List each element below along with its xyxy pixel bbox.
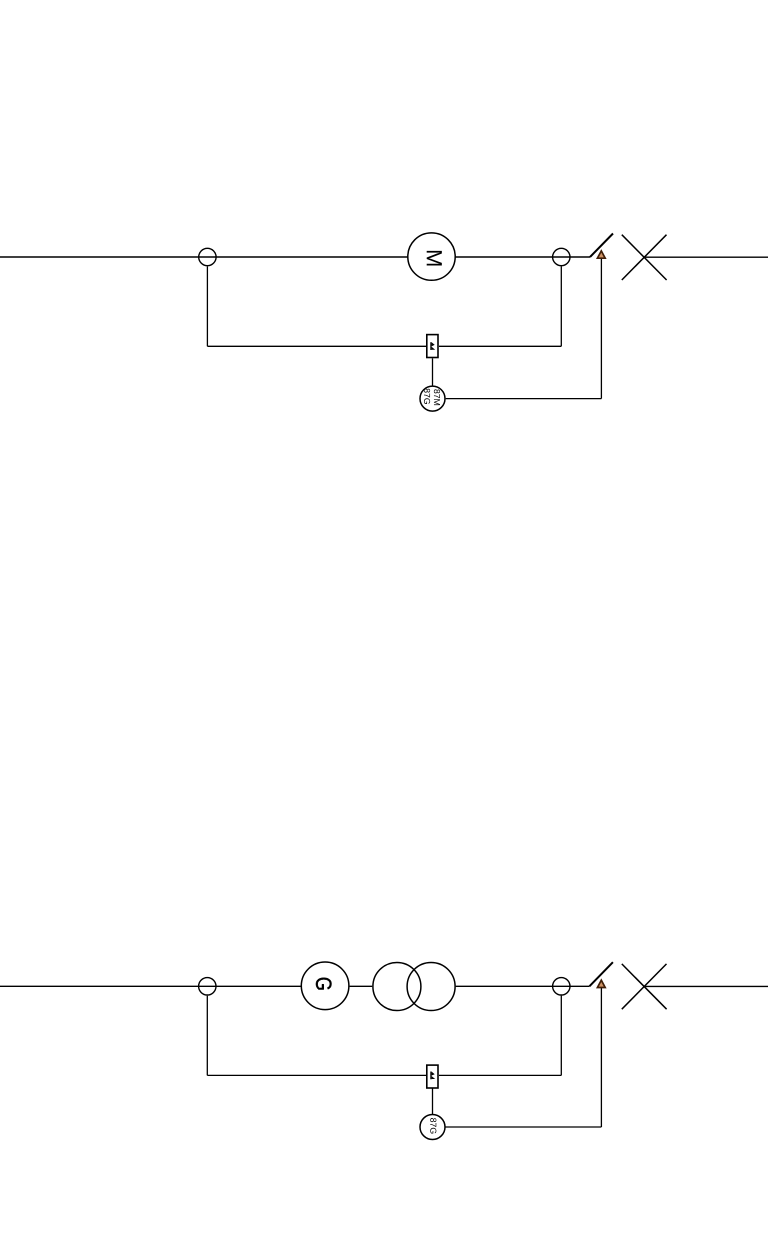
wire left CT drop bottom	[206, 996, 208, 1076]
wire trip line up to switch bottom	[600, 988, 602, 1127]
wire top bus middle segment	[455, 256, 590, 258]
wire loop bottom right top-circuit	[439, 345, 561, 347]
wire relay output horizontal bottom	[446, 1126, 602, 1128]
wire bottom bus middle segment	[456, 985, 590, 987]
wire left CT drop top	[206, 266, 208, 346]
node circle top-left CT	[199, 248, 216, 265]
disconnect switch blade top	[590, 234, 613, 258]
wire top bus right segment	[644, 256, 768, 258]
wire relay output horizontal top	[446, 398, 602, 400]
wire loop bottom left bottom-circuit	[207, 1074, 426, 1076]
node circle bottom-right CT	[553, 978, 570, 995]
transformer T1 primary circle	[373, 963, 421, 1011]
node circle top-right CT	[553, 248, 570, 265]
trip arrow top	[597, 251, 605, 258]
wire right CT drop top	[560, 266, 562, 346]
breaker X bottom	[622, 964, 667, 1009]
wire bottom bus left segment	[0, 985, 301, 987]
wire top bus left segment	[0, 256, 408, 258]
relay 87M 87G	[420, 386, 445, 411]
wire loop bottom right bottom-circuit	[439, 1074, 561, 1076]
transformer T1 secondary circle	[407, 963, 455, 1011]
breaker X top	[622, 235, 667, 280]
relay element box bottom	[427, 1065, 438, 1088]
motor M1	[408, 233, 455, 280]
wire G to transformer	[350, 985, 373, 987]
trip arrow bottom	[597, 980, 605, 987]
node circle bottom-left CT	[199, 978, 216, 995]
wire trip line up to switch top	[600, 258, 602, 398]
disconnect switch blade bottom	[589, 962, 613, 986]
wire loop bottom left top-circuit	[207, 345, 426, 347]
wire box to relay top	[432, 358, 434, 385]
relay element box top	[427, 335, 438, 358]
wire right CT drop bottom	[560, 996, 562, 1076]
wire box to relay bottom	[432, 1088, 434, 1114]
relay 87G	[420, 1115, 445, 1140]
wire bottom bus right segment	[644, 985, 768, 987]
generator G1	[301, 962, 349, 1010]
